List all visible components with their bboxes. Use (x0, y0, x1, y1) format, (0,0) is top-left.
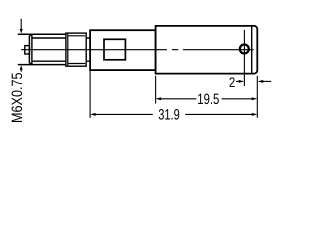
stud chamfer line (31, 34, 33, 64)
nut chamfer top line (68, 35, 85, 37)
dim 2 right arrow (258, 80, 272, 83)
end cap face line (251, 26, 253, 74)
threaded stud M6 outer lines with extension (18, 34, 66, 64)
centerline (21, 49, 254, 51)
stud left face (29, 34, 32, 64)
svg-text:19.5: 19.5 (197, 91, 219, 108)
large body outline (156, 26, 258, 74)
dim 19.5 line (156, 97, 258, 100)
indicator window (104, 39, 125, 60)
svg-text:31.9: 31.9 (158, 107, 180, 124)
dim 31.9 extension line left (body edge continued) (89, 70, 91, 118)
thread minor diameter lines (32, 38, 90, 61)
dim 2 extension line right edge (256, 76, 258, 118)
dim 2 left arrow (236, 80, 244, 83)
nut chamfer bottom line (68, 63, 85, 65)
nut inner face line (67, 33, 69, 66)
dim M6X0.75 top arrow (20, 19, 23, 34)
mid body outline (90, 30, 156, 70)
svg-text:2: 2 (229, 75, 235, 90)
nut outline (66, 33, 86, 66)
dim 31.9 line (90, 113, 257, 116)
hole circle (240, 45, 249, 54)
dim M6X0.75 bottom arrow (20, 65, 23, 72)
svg-text:M6X0.75: M6X0.75 (9, 72, 26, 123)
hole center line vertical (243, 30, 245, 86)
dim 19.5 extension line left (155, 76, 157, 104)
sensing tip (25, 46, 30, 54)
